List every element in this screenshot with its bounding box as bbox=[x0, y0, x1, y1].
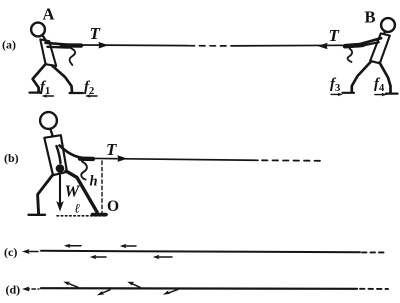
ground line (c) bbox=[41, 251, 360, 253]
ground line (c) dashed end bbox=[362, 251, 387, 253]
man b arms bbox=[60, 146, 86, 159]
man b left leg bbox=[38, 175, 53, 215]
svg-text:f4: f4 bbox=[374, 76, 385, 94]
man B back foot bbox=[386, 92, 398, 94]
svg-text:A: A bbox=[43, 5, 55, 24]
svg-text:(c): (c) bbox=[4, 245, 17, 259]
svg-text:T: T bbox=[90, 24, 101, 43]
svg-text:O: O bbox=[107, 198, 119, 215]
svg-text:f1: f1 bbox=[40, 79, 50, 97]
man B front leg bbox=[352, 62, 371, 93]
svg-text:f3: f3 bbox=[330, 76, 340, 94]
dotted base line l bbox=[57, 215, 106, 217]
man b right leg bbox=[66, 171, 97, 212]
ground line (c) left arrow bbox=[26, 251, 38, 253]
rope (a) solid left part bbox=[80, 44, 188, 47]
svg-text:T: T bbox=[106, 140, 117, 159]
man B arms bbox=[361, 38, 381, 44]
man b neck bbox=[51, 130, 54, 138]
man B rope end squiggle bbox=[348, 49, 353, 63]
friction arrow under f4 (right) bbox=[375, 94, 384, 96]
rope (a) dashed middle bbox=[189, 45, 230, 47]
ground line (d) dashed left arrow bbox=[26, 288, 39, 290]
friction arrow under f3 (right) bbox=[331, 93, 340, 95]
svg-text:W: W bbox=[65, 182, 81, 201]
friction arrow under f2 (left) bbox=[88, 95, 98, 97]
friction arrow c1 above (left) bbox=[67, 245, 81, 247]
man A neck bbox=[43, 36, 46, 40]
man A front leg bbox=[33, 64, 46, 92]
man B hands gripping rope bbox=[345, 45, 363, 46]
dashed vertical height line bbox=[101, 161, 103, 214]
svg-text:ℓ: ℓ bbox=[75, 201, 81, 216]
friction arrow c2 below (left) bbox=[93, 256, 106, 258]
tension arrowhead on A side (right) bbox=[99, 42, 109, 49]
svg-text:(a): (a) bbox=[2, 38, 16, 52]
man A back leg bbox=[52, 66, 72, 93]
rope (a) solid right part bbox=[231, 44, 346, 47]
man B front foot bbox=[343, 92, 355, 94]
man A front foot bbox=[30, 91, 41, 93]
man b head bbox=[40, 112, 57, 129]
man A torso bbox=[40, 39, 56, 66]
man A back foot bbox=[70, 92, 84, 94]
svg-text:(b): (b) bbox=[4, 151, 19, 165]
svg-text:T: T bbox=[329, 26, 340, 45]
svg-text:f2: f2 bbox=[84, 79, 94, 97]
friction arrow c3 above (left) bbox=[123, 245, 136, 247]
friction arrow under f1 (left) bbox=[44, 95, 54, 97]
weight arrow W bbox=[59, 173, 61, 204]
man b left foot bbox=[29, 214, 46, 216]
tension arrowhead (b) bbox=[118, 155, 128, 162]
man A arms bbox=[46, 43, 67, 45]
man B head bbox=[381, 18, 395, 32]
man A head bbox=[31, 23, 45, 37]
svg-text:B: B bbox=[365, 8, 376, 27]
centre of mass dot bbox=[56, 164, 65, 173]
man b hands on rope bbox=[80, 156, 93, 161]
friction arrow c4 below (left) bbox=[156, 256, 172, 258]
foot force arrow d1 above (up-left) bbox=[67, 283, 79, 288]
foot force arrow d4 below (down-left) bbox=[167, 289, 178, 293]
svg-text:(d): (d) bbox=[6, 283, 21, 297]
man B back leg bbox=[380, 63, 391, 94]
man b rope end squiggle bbox=[81, 162, 87, 180]
svg-text:h: h bbox=[90, 174, 98, 190]
rope (b) solid bbox=[84, 158, 258, 160]
tension arrowhead on B side (left) bbox=[318, 43, 328, 50]
foot force arrow d2 below (down-left) bbox=[101, 290, 111, 294]
foot force arrow d3 above (up-left) bbox=[131, 283, 141, 287]
ground line (d) dashed end bbox=[360, 288, 388, 290]
ground line (d) bbox=[41, 287, 357, 290]
rope (b) dashed tail bbox=[262, 159, 321, 162]
man B torso bbox=[370, 33, 390, 63]
man B neck bbox=[384, 32, 386, 36]
man b right foot bbox=[93, 213, 107, 217]
man A rope end squiggle bbox=[69, 48, 75, 66]
man b torso bbox=[44, 135, 67, 175]
man A hands gripping rope bbox=[62, 43, 81, 48]
